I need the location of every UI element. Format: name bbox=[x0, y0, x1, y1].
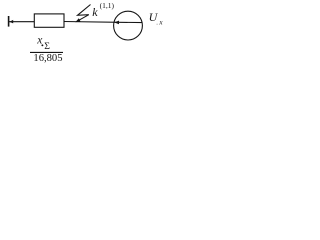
svg-text:16,805: 16,805 bbox=[33, 53, 62, 63]
svg-text:(1,1): (1,1) bbox=[100, 1, 115, 10]
svg-text:k: k bbox=[92, 5, 98, 19]
svg-text:Σ: Σ bbox=[44, 41, 50, 52]
svg-text:х: х bbox=[158, 18, 163, 26]
svg-text:.: . bbox=[156, 19, 158, 26]
